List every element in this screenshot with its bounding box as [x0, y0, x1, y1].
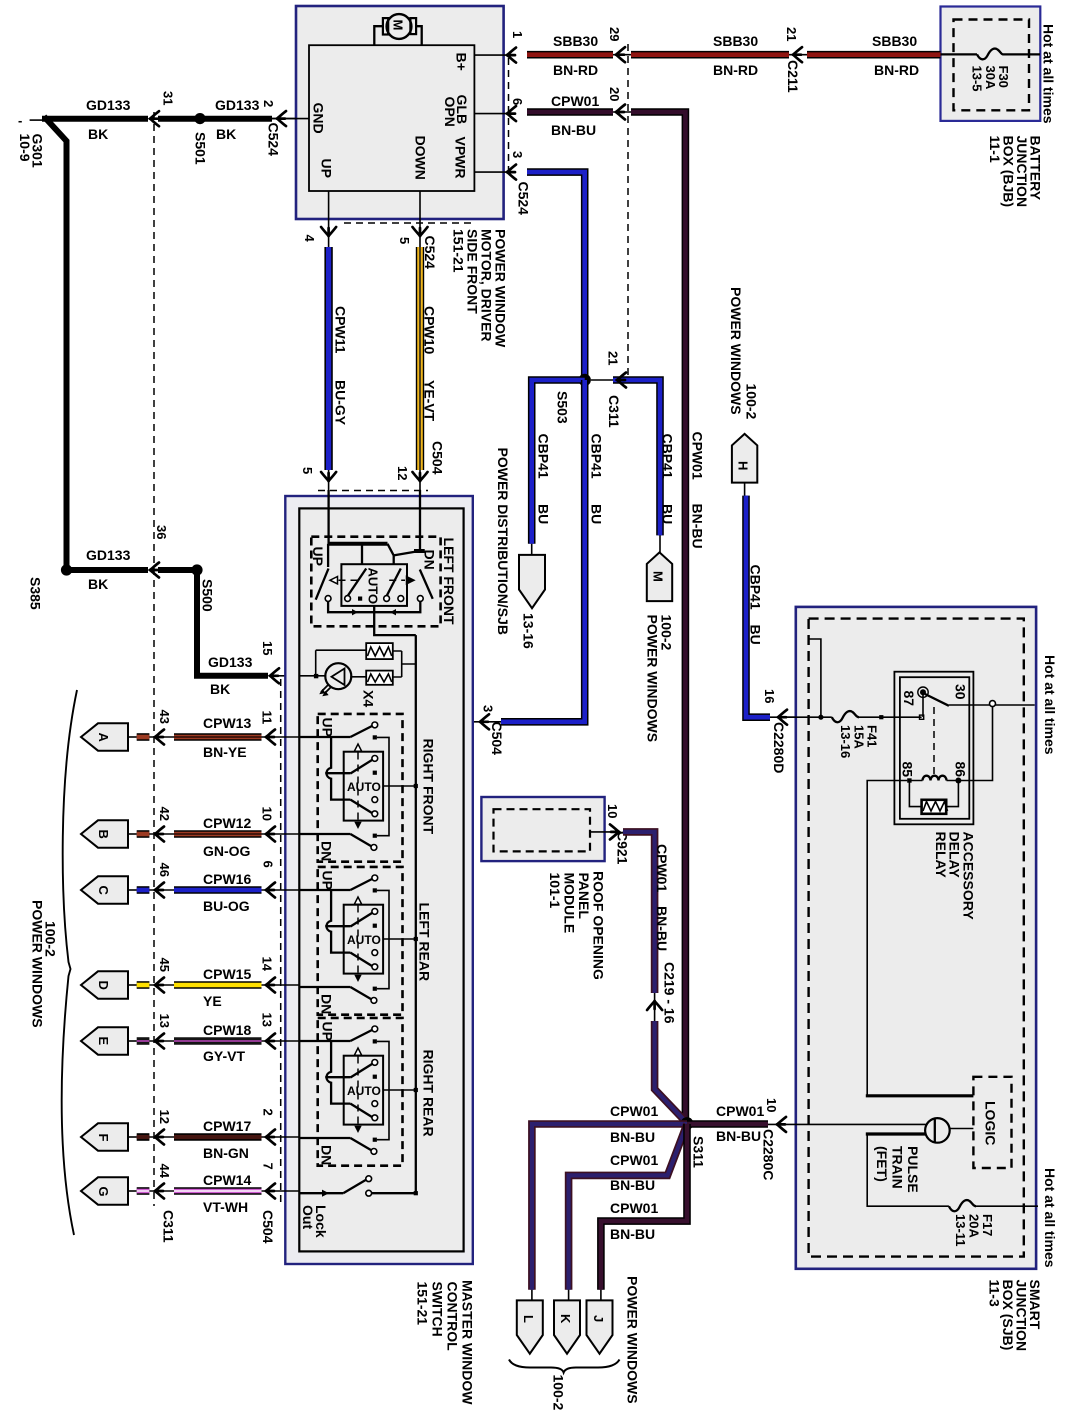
connector POWER DISTRIBUTION/SJB pentagon [519, 555, 545, 608]
wire CBP41 BU S503 left branch to SJB connector [532, 380, 585, 544]
wire SBB30 BN-RD segment 2 [613, 54, 632, 56]
svg-text:10: 10 [260, 807, 275, 821]
svg-text:A: A [96, 733, 111, 743]
wire GD133 BK S500 down to pin15 [197, 567, 268, 676]
svg-text:S311: S311 [691, 1136, 707, 1168]
connector C524 arrow pin6 [507, 106, 516, 121]
wire UP feed into left front switch [327, 490, 329, 544]
svg-text:CPW13: CPW13 [203, 715, 251, 731]
svg-text:CPW11: CPW11 [333, 306, 349, 354]
connector arrow pin12 bottom C504 [413, 472, 428, 481]
accessory delay relay inner box [900, 677, 969, 819]
junction square GND node [314, 674, 318, 678]
connector D pentagon [81, 971, 128, 998]
svg-text:GY-VT: GY-VT [203, 1048, 245, 1064]
roof opening panel module box [481, 797, 604, 861]
svg-text:S385: S385 [28, 577, 44, 610]
wire motor right lead [416, 26, 422, 45]
left front switch DN stub bar [414, 549, 425, 553]
lock out switch wire [300, 1192, 343, 1194]
svg-text:31: 31 [161, 91, 176, 105]
wire CPW01 BN-BU top segment 1 [527, 108, 613, 116]
svg-text:C211: C211 [785, 60, 801, 93]
left front trigger triangle left [330, 577, 338, 584]
connector arrow 36 [150, 563, 159, 578]
svg-text:CPW01: CPW01 [690, 432, 706, 480]
connector K pentagon [554, 1300, 580, 1353]
connector arrow pin 6 [262, 889, 300, 891]
svg-text:H: H [736, 461, 751, 470]
connector arrow 21 C211 [793, 47, 802, 62]
battery junction box inner dashed [954, 20, 1030, 111]
svg-text:BK: BK [216, 126, 236, 142]
left front contact square [358, 597, 362, 601]
wire pin UP lead [328, 191, 330, 232]
svg-text:BN-BU: BN-BU [551, 122, 596, 138]
lock out contact circle [366, 1190, 372, 1196]
wire CPW12 GN-OG stub [128, 833, 137, 835]
svg-text:-: - [18, 113, 22, 128]
svg-text:21: 21 [606, 351, 621, 365]
master window control switch inner box [299, 508, 463, 1251]
svg-text:LEFT FRONT: LEFT FRONT [441, 538, 457, 626]
svg-text:5: 5 [300, 467, 315, 474]
left front inner lever right [387, 569, 401, 597]
connector G pentagon [81, 1177, 128, 1204]
connector C311 dashed line x154 [153, 112, 155, 1206]
svg-text:AUTO: AUTO [347, 780, 381, 794]
svg-text:6: 6 [510, 98, 525, 105]
wire BJB feed line [941, 53, 978, 55]
svg-text:K: K [558, 1314, 573, 1324]
lamp arrows [321, 685, 331, 695]
connector C524 arrow pin1 [507, 48, 516, 63]
wire F17 to hot [976, 1205, 1038, 1207]
wire CPW16 BU-OG stub [128, 889, 137, 891]
left front trigger triangle right [407, 577, 415, 584]
left front trigger dash left [339, 579, 360, 581]
left front switch dashed box [311, 537, 440, 627]
svg-text:C2280C: C2280C [761, 1129, 777, 1180]
svg-text:RELAY: RELAY [933, 832, 949, 879]
lamp symbol circle [325, 663, 351, 689]
lock out wire arrow [322, 1190, 329, 1197]
thick line FET source [866, 1132, 927, 1135]
svg-text:CBP41: CBP41 [660, 434, 676, 479]
svg-text:44: 44 [157, 1164, 172, 1179]
wire CBP41 BU from H down to SJB pin16 [744, 483, 746, 496]
left front DN lever [420, 570, 433, 599]
wire CPW17 BN-GN stub [128, 1136, 137, 1138]
svg-text:CPW12: CPW12 [203, 815, 251, 831]
svg-text:AUTO: AUTO [366, 568, 381, 605]
svg-text:42: 42 [157, 807, 172, 821]
fuse F17 symbol [949, 1200, 976, 1211]
lock out tip circle [366, 1176, 372, 1182]
svg-text:C524: C524 [266, 123, 282, 157]
connector arrow pin 15 [270, 668, 279, 683]
svg-text:L: L [521, 1315, 536, 1323]
brace power windows left [62, 690, 77, 1235]
SJB inner dashed [809, 619, 1024, 1257]
svg-text:UP: UP [319, 159, 335, 178]
wire GD133 BK to S501 [158, 116, 197, 122]
left front switch feed drops [328, 544, 362, 567]
lock out output line [372, 1192, 416, 1194]
switch unit RIGHT FRONT [300, 714, 418, 862]
svg-text:YE-VT: YE-VT [422, 380, 438, 422]
wire pin GLB OPN lead [474, 113, 513, 115]
left front UP lever [316, 569, 329, 600]
svg-text:20: 20 [607, 87, 622, 101]
svg-text:BN-BU: BN-BU [610, 1129, 655, 1145]
relay lever 30 [925, 694, 949, 706]
svg-text:151-21: 151-21 [451, 229, 467, 273]
connector C504 dashed line top [318, 490, 428, 492]
connector C504 dashed line left of switch [280, 679, 282, 1207]
svg-text:POWER WINDOWS: POWER WINDOWS [645, 615, 661, 743]
brace 100-2 bottom [509, 1360, 620, 1373]
svg-text:DN: DN [318, 1145, 334, 1165]
svg-text:MASTER WINDOW: MASTER WINDOW [460, 1280, 476, 1405]
svg-text:29: 29 [607, 27, 622, 41]
svg-text:4: 4 [302, 235, 317, 243]
svg-text:45: 45 [157, 958, 172, 972]
svg-text:13-16: 13-16 [521, 613, 537, 649]
svg-text:BU: BU [748, 625, 764, 645]
svg-text:BN-BU: BN-BU [716, 1128, 761, 1144]
wire CPW14 VT-WH main [174, 1187, 262, 1195]
svg-text:DN: DN [318, 994, 334, 1014]
svg-text:3: 3 [510, 151, 525, 158]
wire relay 85 to logic [867, 781, 907, 1096]
wire CPW01 BN-BU roof branch upper [623, 832, 655, 993]
svg-text:BU-OG: BU-OG [203, 898, 250, 914]
relay pin 85 square [907, 778, 911, 782]
connector arrow 12 [149, 1136, 174, 1138]
svg-text:CONTROL: CONTROL [445, 1282, 461, 1352]
junction S385 [61, 564, 72, 575]
wire CPW12 GN-OG main [174, 830, 262, 838]
svg-text:F: F [96, 1134, 111, 1142]
svg-text:UP: UP [310, 547, 326, 566]
svg-text:M: M [651, 571, 666, 582]
SJB step wire top left [809, 639, 821, 717]
svg-text:GD133: GD133 [86, 97, 131, 113]
wire CPW01 BN-BU top segment 2 and vertical run [613, 111, 632, 113]
connector C pentagon [81, 876, 128, 903]
svg-text:1: 1 [510, 31, 525, 38]
smart junction box SJB outer [796, 607, 1036, 1269]
svg-text:CPW14: CPW14 [203, 1172, 251, 1188]
svg-text:Hot at all times: Hot at all times [1042, 1168, 1058, 1268]
svg-text:CPW01: CPW01 [654, 844, 670, 892]
connector arrow pin10 C2280C [777, 1117, 786, 1132]
connector arrow pin4 bottom C504 [321, 472, 336, 481]
wire F17 vertical feed [867, 1134, 949, 1206]
wire fuse to relay 87 [859, 716, 922, 718]
svg-text:14: 14 [260, 957, 275, 972]
connector arrow pin 2 [262, 1136, 300, 1138]
svg-text:36: 36 [154, 525, 169, 539]
left front switch common bar [328, 542, 387, 546]
fuse F30 symbol [977, 49, 1003, 60]
svg-text:15: 15 [260, 641, 275, 655]
svg-text:10: 10 [605, 804, 620, 818]
connector arrow pin 14 [262, 984, 300, 986]
wire LOGIC to FET [950, 1128, 974, 1130]
svg-text:Hot at all times: Hot at all times [1042, 655, 1058, 755]
svg-text:POWER WINDOWS: POWER WINDOWS [30, 900, 46, 1028]
svg-text:11-1: 11-1 [987, 136, 1003, 163]
switch unit RIGHT REAR [300, 1018, 418, 1166]
svg-text:C504: C504 [489, 722, 505, 756]
svg-text:BU-GY: BU-GY [333, 380, 349, 426]
svg-text:CPW01: CPW01 [610, 1152, 658, 1168]
svg-text:S500: S500 [200, 579, 216, 612]
master window control switch outer box [285, 496, 473, 1264]
battery junction box BJB outer [941, 7, 1041, 121]
svg-text:D: D [96, 981, 111, 990]
svg-text:BN-YE: BN-YE [203, 744, 247, 760]
relay 86 to hot vertical [958, 707, 992, 781]
svg-text:LOGIC: LOGIC [983, 1101, 999, 1145]
svg-text:30: 30 [953, 684, 969, 700]
connector C524 arrow pin5 [413, 227, 428, 236]
connector arrow pin 7 [262, 1190, 300, 1192]
wire CPW01 BN-BU branch to K [569, 1124, 687, 1290]
connector F pentagon [81, 1123, 128, 1150]
svg-text:CPW01: CPW01 [716, 1103, 764, 1119]
svg-text:2: 2 [261, 100, 276, 107]
svg-text:46: 46 [157, 863, 172, 877]
motor brush left [383, 18, 388, 34]
svg-text:BN-RD: BN-RD [874, 62, 919, 78]
svg-text:C219 - 16: C219 - 16 [662, 962, 678, 1024]
svg-text:C311: C311 [606, 395, 622, 428]
connector arrow pin 10 [262, 833, 300, 835]
svg-text:RIGHT FRONT: RIGHT FRONT [420, 739, 436, 835]
connector arrow 21 C311 [617, 373, 626, 388]
ground G301 minus stub [30, 119, 44, 121]
relay shunt resistor [909, 782, 958, 807]
svg-text:BN-BU: BN-BU [690, 504, 706, 549]
svg-text:2: 2 [261, 1109, 276, 1116]
wire pin GND lead [268, 118, 309, 120]
roof module pin line [590, 831, 612, 833]
svg-text:Hot at all times: Hot at all times [1041, 24, 1057, 124]
roof module inner dashed [494, 809, 591, 851]
svg-text:YE: YE [203, 993, 222, 1009]
junction S500 [191, 564, 202, 575]
svg-text:VT-WH: VT-WH [203, 1199, 248, 1215]
svg-text:12: 12 [157, 1110, 172, 1124]
switch unit LEFT REAR [300, 867, 418, 1015]
wire GD133 BK top run [42, 116, 148, 122]
svg-text:CBP41: CBP41 [536, 434, 552, 479]
wire CPW14 VT-WH stub [128, 1190, 137, 1192]
svg-text:SBB30: SBB30 [872, 33, 917, 49]
connector E pentagon [81, 1027, 128, 1054]
thick line to LOGIC [866, 1094, 974, 1097]
svg-text:3: 3 [481, 705, 496, 712]
svg-text:C504: C504 [260, 1210, 276, 1244]
lock out lever [343, 1180, 366, 1194]
svg-text:DN: DN [318, 841, 334, 861]
svg-text:11-3: 11-3 [987, 1280, 1003, 1307]
wire CPW01 BN-BU branch to J [601, 1124, 687, 1290]
svg-text:13-11: 13-11 [953, 1214, 968, 1247]
FET transistor circle [925, 1118, 950, 1143]
left front AUTO box [341, 564, 407, 606]
svg-text:C2280D: C2280D [771, 722, 787, 773]
relay contact circle on hot line [990, 701, 996, 707]
svg-text:86: 86 [953, 762, 969, 778]
accessory delay relay outer box [894, 672, 973, 825]
svg-text:CPW16: CPW16 [203, 871, 251, 887]
svg-text:J: J [591, 1315, 606, 1322]
svg-text:43: 43 [157, 710, 172, 724]
motor M1 symbol circle [387, 14, 412, 39]
svg-text:UP: UP [319, 871, 335, 890]
connector C524 arrow pin4 [321, 227, 336, 236]
connector arrow 13 [149, 1040, 174, 1042]
svg-text:CPW10: CPW10 [422, 306, 438, 354]
svg-text:UP: UP [319, 718, 335, 737]
svg-text:DOWN: DOWN [413, 136, 429, 180]
svg-text:CPW01: CPW01 [610, 1103, 658, 1119]
left front switch V node [388, 544, 420, 564]
svg-text:S503: S503 [555, 391, 571, 424]
left front trigger dash right [389, 579, 405, 581]
svg-text:BN-BU: BN-BU [610, 1177, 655, 1193]
connector arrow pin 13 [262, 1040, 300, 1042]
wire CPW10 YE-VT vertical [416, 247, 424, 470]
svg-text:101-1: 101-1 [547, 873, 563, 909]
svg-text:C524: C524 [422, 236, 438, 270]
svg-text:16: 16 [762, 689, 777, 703]
svg-text:B: B [96, 830, 111, 839]
connector C524 dashed line bottom [344, 222, 474, 224]
svg-text:SBB30: SBB30 [713, 33, 758, 49]
junction S311 [681, 1117, 694, 1130]
wire CPW01 BN-BU S311 to C2280C [687, 1120, 768, 1128]
connector H pentagon [732, 434, 757, 483]
svg-text:UP: UP [319, 1022, 335, 1041]
svg-text:GD133: GD133 [86, 547, 131, 563]
LOGIC dashed box [973, 1077, 1011, 1168]
svg-text:POWER WINDOWS: POWER WINDOWS [728, 287, 744, 415]
wire GD133 BK S385 to arrow [67, 567, 149, 573]
svg-text:10: 10 [764, 1098, 779, 1112]
main switch bus vertical [415, 635, 417, 1193]
svg-text:13-16: 13-16 [838, 725, 853, 758]
wire BJB to hot [1003, 53, 1040, 55]
wire CPW01 BN-BU roof branch lower diagonal [655, 1021, 686, 1122]
wire DOWN feed into left front switch [419, 490, 421, 551]
svg-text:21: 21 [784, 27, 799, 41]
svg-text:TRAIN: TRAIN [890, 1146, 906, 1189]
wire pin VPWR lead [474, 171, 513, 173]
left front contact circles [325, 596, 331, 602]
connector C211 dashed line x628 [627, 44, 629, 378]
wire CBP41 BU S503 down to switch pin3 [501, 380, 585, 722]
svg-text:11: 11 [260, 711, 275, 725]
relay pin 87 square [920, 715, 924, 719]
svg-text:M: M [391, 20, 406, 31]
svg-text:10-9: 10-9 [17, 134, 33, 162]
junction S503 [579, 374, 591, 386]
connector M pentagon [647, 552, 672, 601]
svg-text:CBP41: CBP41 [589, 434, 605, 479]
wire pin16 feed inside SJB [785, 716, 832, 718]
relay line to hot [949, 704, 1035, 706]
connector arrow C219-16 [647, 1001, 662, 1010]
connector arrow 29 [616, 47, 625, 62]
junction square mid [879, 715, 883, 719]
svg-text:B+: B+ [454, 53, 470, 71]
wire CPW15 YE stub [128, 984, 137, 986]
lamp diode triangle [332, 669, 345, 686]
wire C2280C line to FET [786, 1123, 926, 1125]
left front bottom bus [328, 601, 420, 612]
connector C524 arrow pin3 [507, 165, 516, 180]
connector arrow C921 pin10 [610, 824, 619, 839]
svg-text:RIGHT REAR: RIGHT REAR [420, 1050, 436, 1137]
connector A pentagon [81, 723, 128, 750]
wire pin DOWN lead [419, 191, 421, 232]
wire CPW13 BN-YE stub [128, 736, 137, 738]
connector arrow 42 [149, 833, 174, 835]
svg-text:GN-OG: GN-OG [203, 843, 251, 859]
svg-text:S501: S501 [193, 132, 209, 165]
svg-text:C311: C311 [161, 1210, 177, 1243]
wire SBB30 BN-RD segment 1 [527, 51, 613, 59]
junction S501 [194, 113, 205, 124]
connector C524 dashed line right [508, 58, 510, 171]
connector arrow pin3 C504 [480, 714, 489, 729]
svg-text:C921: C921 [615, 831, 631, 865]
svg-text:(FET): (FET) [874, 1146, 890, 1182]
svg-text:CPW01: CPW01 [551, 93, 599, 109]
svg-text:BU: BU [589, 504, 605, 524]
svg-text:BK: BK [210, 681, 230, 697]
left front inner lever left [348, 569, 367, 597]
svg-text:BU: BU [536, 504, 552, 524]
connector arrow 31 [150, 111, 159, 126]
wire CBP41 BU S503 right branch to M [591, 379, 614, 381]
wire GD133 BK to S500 [158, 567, 197, 573]
svg-text:87: 87 [901, 691, 917, 707]
svg-text:SBB30: SBB30 [553, 33, 598, 49]
svg-text:POWER WINDOWS: POWER WINDOWS [625, 1276, 641, 1404]
connector L pentagon [517, 1300, 543, 1353]
connector arrow 45 [149, 984, 174, 986]
wire CPW16 BU-OG main [174, 886, 262, 894]
connector arrow 46 [149, 889, 174, 891]
connector arrow 43 [149, 736, 174, 738]
svg-text:100-2: 100-2 [744, 384, 760, 420]
wire pin B+ lead [474, 54, 513, 56]
relay common contact [922, 695, 924, 717]
svg-text:CBP41: CBP41 [748, 565, 764, 610]
motor brush right [410, 18, 416, 34]
svg-text:BK: BK [88, 576, 108, 592]
relay coil [909, 780, 958, 782]
svg-text:G: G [96, 1187, 111, 1197]
connector arrow pin16 C2280D [778, 710, 787, 725]
svg-text:VPWR: VPWR [453, 137, 469, 179]
